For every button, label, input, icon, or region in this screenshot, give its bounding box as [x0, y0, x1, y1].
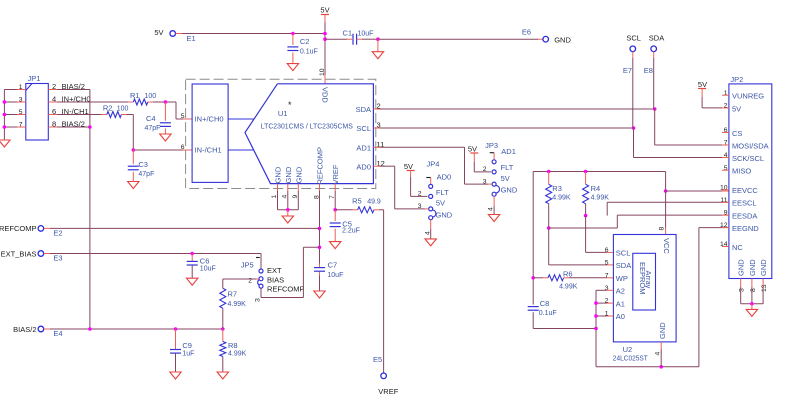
svg-text:E4: E4 — [53, 329, 62, 338]
svg-text:R8: R8 — [228, 341, 238, 350]
svg-text:GND: GND — [436, 210, 453, 219]
svg-text:10uF: 10uF — [200, 266, 216, 273]
svg-text:2: 2 — [483, 166, 487, 173]
svg-text:EESDA: EESDA — [732, 212, 757, 221]
svg-text:E5: E5 — [373, 355, 382, 364]
svg-text:VCC: VCC — [662, 238, 671, 254]
svg-text:5V: 5V — [404, 162, 413, 171]
svg-text:5V: 5V — [468, 145, 477, 154]
svg-text:4: 4 — [655, 352, 662, 356]
svg-text:49.9: 49.9 — [367, 199, 381, 206]
svg-text:LTC2301CMS / LTC2305CMS: LTC2301CMS / LTC2305CMS — [261, 122, 353, 131]
svg-text:100: 100 — [145, 93, 157, 100]
svg-text:MOSI/SDA: MOSI/SDA — [732, 141, 769, 150]
svg-text:10uF: 10uF — [358, 31, 374, 38]
svg-text:C3: C3 — [138, 160, 148, 169]
svg-text:10uF: 10uF — [327, 272, 343, 279]
svg-text:SCL: SCL — [356, 124, 371, 133]
svg-text:2: 2 — [52, 82, 56, 91]
svg-text:AD0: AD0 — [437, 172, 452, 181]
svg-text:GND: GND — [274, 166, 283, 183]
svg-text:6: 6 — [724, 127, 728, 134]
svg-text:EEVCC: EEVCC — [732, 186, 758, 195]
svg-text:100: 100 — [117, 106, 129, 113]
svg-text:AD1: AD1 — [501, 147, 516, 156]
svg-text:1: 1 — [271, 195, 278, 199]
svg-text:5: 5 — [19, 109, 23, 116]
svg-text:7: 7 — [724, 140, 728, 147]
svg-text:5V: 5V — [501, 174, 510, 183]
svg-text:BIAS: BIAS — [267, 275, 284, 284]
svg-text:E6: E6 — [522, 28, 531, 37]
svg-text:GND: GND — [554, 36, 571, 45]
svg-text:C2: C2 — [300, 37, 310, 46]
svg-text:11: 11 — [720, 197, 727, 204]
svg-text:VREF: VREF — [331, 164, 340, 184]
svg-text:SDA: SDA — [356, 105, 371, 114]
svg-text:EXT: EXT — [267, 266, 282, 275]
svg-text:E7: E7 — [623, 66, 632, 75]
svg-text:5: 5 — [181, 113, 185, 120]
svg-text:R1: R1 — [130, 91, 140, 100]
svg-text:14: 14 — [720, 241, 728, 248]
svg-text:JP3: JP3 — [485, 141, 498, 150]
svg-text:47pF: 47pF — [138, 171, 154, 178]
svg-text:IN-/CH1: IN-/CH1 — [195, 146, 222, 155]
svg-text:1uF: 1uF — [182, 350, 194, 357]
svg-text:9: 9 — [724, 210, 728, 217]
svg-text:E1: E1 — [187, 34, 196, 43]
svg-text:R7: R7 — [228, 290, 238, 299]
svg-text:U1: U1 — [278, 109, 288, 118]
svg-text:9: 9 — [292, 195, 299, 199]
svg-text:A1: A1 — [616, 299, 625, 308]
svg-text:47pF: 47pF — [145, 125, 161, 132]
svg-text:GND: GND — [501, 186, 518, 195]
svg-text:2.2uF: 2.2uF — [342, 228, 360, 235]
svg-text:4: 4 — [281, 195, 288, 199]
svg-text:BIAS/2: BIAS/2 — [13, 325, 36, 334]
svg-text:SCK/SCL: SCK/SCL — [732, 154, 764, 163]
svg-text:5V: 5V — [320, 6, 329, 15]
svg-text:E8: E8 — [644, 66, 653, 75]
svg-text:2: 2 — [724, 103, 728, 110]
svg-text:4.99K: 4.99K — [591, 195, 610, 202]
svg-text:CS: CS — [732, 129, 742, 138]
svg-text:4: 4 — [724, 152, 728, 159]
svg-text:24LC025ST: 24LC025ST — [613, 354, 648, 363]
svg-text:4.99K: 4.99K — [228, 301, 247, 308]
svg-text:5V: 5V — [154, 28, 163, 37]
svg-text:NC: NC — [732, 243, 743, 252]
svg-text:FLT: FLT — [436, 188, 449, 197]
svg-text:IN+/CH0: IN+/CH0 — [195, 115, 224, 124]
svg-text:13: 13 — [761, 284, 768, 292]
svg-text:4.99K: 4.99K — [228, 351, 247, 358]
svg-text:E3: E3 — [53, 254, 62, 263]
svg-text:SCL: SCL — [626, 34, 641, 43]
svg-text:VUNREG: VUNREG — [732, 92, 764, 101]
svg-text:3: 3 — [418, 203, 422, 210]
svg-text:REFCOMP: REFCOMP — [0, 224, 37, 233]
svg-text:1: 1 — [19, 84, 23, 91]
svg-text:0.1uF: 0.1uF — [300, 49, 318, 56]
svg-text:R3: R3 — [552, 184, 562, 193]
svg-text:WP: WP — [616, 274, 628, 283]
svg-text:GND: GND — [658, 322, 667, 339]
svg-text:6: 6 — [605, 247, 609, 254]
svg-text:GND: GND — [759, 259, 768, 276]
svg-text:6: 6 — [181, 144, 185, 151]
svg-text:4: 4 — [488, 207, 495, 211]
svg-text:REFCOMP: REFCOMP — [316, 147, 325, 185]
svg-text:4: 4 — [52, 95, 56, 104]
svg-text:EESCL: EESCL — [732, 199, 757, 208]
svg-text:C8: C8 — [540, 299, 550, 308]
svg-text:12: 12 — [720, 222, 728, 229]
svg-text:C1: C1 — [343, 29, 353, 38]
svg-text:2: 2 — [418, 191, 422, 198]
svg-text:6: 6 — [52, 107, 56, 116]
svg-text:3: 3 — [483, 179, 487, 186]
svg-text:0.1uF: 0.1uF — [539, 310, 557, 317]
svg-text:JP1: JP1 — [28, 74, 41, 83]
svg-text:GND: GND — [737, 259, 746, 276]
svg-text:JP4: JP4 — [427, 160, 440, 169]
svg-text:*: * — [288, 100, 292, 110]
svg-text:7: 7 — [605, 272, 609, 279]
svg-text:FLT: FLT — [501, 163, 514, 172]
svg-text:3: 3 — [739, 288, 746, 292]
svg-text:10: 10 — [720, 184, 728, 191]
svg-text:C4: C4 — [146, 114, 156, 123]
svg-text:JP5: JP5 — [241, 261, 254, 270]
svg-text:8: 8 — [750, 288, 757, 292]
svg-text:R6: R6 — [563, 270, 573, 279]
svg-text:R5: R5 — [352, 197, 362, 206]
svg-text:SDA: SDA — [616, 261, 631, 270]
svg-text:EEPROM: EEPROM — [638, 262, 647, 295]
svg-text:5V: 5V — [732, 104, 741, 113]
svg-text:7: 7 — [19, 122, 23, 129]
svg-text:A0: A0 — [616, 312, 625, 321]
svg-text:MISO: MISO — [732, 167, 751, 176]
svg-text:4.99K: 4.99K — [559, 284, 578, 291]
svg-text:8: 8 — [659, 227, 666, 231]
svg-text:5: 5 — [605, 259, 609, 266]
svg-text:EXT_BIAS: EXT_BIAS — [1, 249, 37, 258]
svg-text:SCL: SCL — [616, 249, 631, 258]
svg-text:E2: E2 — [53, 228, 62, 237]
svg-text:3: 3 — [255, 298, 262, 302]
svg-text:REFCOMP: REFCOMP — [267, 285, 305, 294]
svg-text:C7: C7 — [328, 261, 338, 270]
svg-text:GND: GND — [294, 166, 303, 183]
svg-text:AD1: AD1 — [356, 144, 371, 153]
svg-text:5V: 5V — [436, 199, 445, 208]
svg-text:C9: C9 — [182, 341, 192, 350]
svg-text:JP2: JP2 — [730, 75, 743, 84]
svg-text:A2: A2 — [616, 287, 625, 296]
svg-text:1: 1 — [724, 90, 728, 97]
svg-text:8: 8 — [52, 120, 56, 129]
svg-text:5: 5 — [724, 165, 728, 172]
svg-text:4.99K: 4.99K — [552, 195, 571, 202]
svg-text:10: 10 — [319, 68, 326, 76]
svg-text:VDD: VDD — [321, 87, 330, 103]
svg-text:5V: 5V — [698, 80, 707, 89]
svg-text:EEGND: EEGND — [732, 224, 759, 233]
svg-text:GND: GND — [284, 166, 293, 183]
svg-text:R2: R2 — [103, 104, 113, 113]
svg-text:R4: R4 — [591, 184, 601, 193]
svg-text:SDA: SDA — [649, 34, 664, 43]
svg-text:C6: C6 — [200, 256, 210, 265]
svg-text:3: 3 — [19, 97, 23, 104]
svg-text:AD0: AD0 — [356, 162, 371, 171]
svg-text:VREF: VREF — [378, 387, 398, 396]
svg-text:GND: GND — [748, 259, 757, 276]
